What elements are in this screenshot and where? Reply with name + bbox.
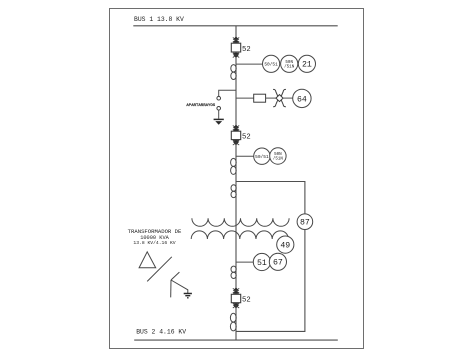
svg-text:/51N: /51N (284, 64, 295, 69)
delta winding symbol (139, 252, 156, 268)
breaker 52 (middle) box (231, 131, 250, 141)
svg-text:49: 49 (280, 242, 290, 251)
transformer T1 primary winding (192, 218, 289, 226)
svg-text:51: 51 (257, 259, 267, 268)
bus BUS 2 4.16 KV (134, 328, 338, 340)
relay 49 thermal (277, 236, 294, 253)
svg-text:50/51: 50/51 (264, 62, 278, 68)
svg-text:67: 67 (273, 259, 283, 268)
relay 50N/51N (transformer primary) (270, 148, 286, 164)
wire branch to transformer primary relays (236, 155, 254, 157)
bus BUS 1 13.8 KV (133, 16, 337, 26)
svg-text:50/51: 50/51 (255, 154, 269, 160)
svg-text:50N: 50N (285, 61, 293, 65)
wire branch to ground relay (236, 97, 254, 99)
breaker 52 (lower) box (231, 294, 250, 304)
svg-text:21: 21 (302, 61, 312, 70)
wire main feeder vertical (235, 26, 237, 340)
breaker 52 (upper) drawout arrow down (233, 53, 239, 58)
potential transformer symbol (273, 89, 293, 106)
CT coil set D above bus 2 (230, 313, 236, 331)
ground (wye neutral) (184, 294, 192, 298)
svg-text:/51N: /51N (273, 157, 284, 162)
svg-text:87: 87 (300, 219, 310, 228)
relay 50/51 (feeder) (263, 55, 280, 72)
breaker 52 (lower) drawout arrow up (233, 287, 239, 293)
wire branch to surge arrester (219, 90, 236, 96)
relay 50/51 (transformer primary) (254, 148, 270, 164)
relay 64 ground (293, 89, 311, 107)
breaker 52 (lower) drawout arrow down (233, 303, 239, 308)
breaker 52 (upper) drawout arrow up (233, 36, 239, 42)
wire differential CT loop to 87 (236, 182, 305, 332)
label APARTARRAYOS (186, 104, 215, 108)
svg-text:13.8 KV/4.16 KV: 13.8 KV/4.16 KV (133, 240, 175, 246)
svg-text:BUS 1 13.8 KV: BUS 1 13.8 KV (134, 16, 184, 23)
surge arrester gap contacts (217, 96, 221, 118)
relay 67 directional (269, 253, 286, 270)
transformer T1 secondary winding (191, 231, 288, 239)
svg-text:52: 52 (242, 46, 251, 54)
svg-text:52: 52 (242, 297, 251, 305)
CT coil set C differential (231, 185, 236, 198)
connection slash (147, 257, 172, 282)
resistor box (grounding) (254, 94, 277, 102)
svg-text:BUS 2 4.16 KV: BUS 2 4.16 KV (136, 328, 186, 335)
CT coil set B below middle breaker (231, 158, 237, 174)
relay 51 (secondary) (253, 253, 270, 270)
relay 87 differential (297, 214, 313, 230)
relay 50N/51N (feeder) (281, 55, 298, 72)
breaker 52 (middle) drawout arrow down (233, 140, 239, 145)
label transformer data (128, 228, 182, 246)
breaker 52 (middle) drawout arrow up (233, 125, 239, 131)
svg-text:64: 64 (297, 95, 307, 104)
ground (surge arrester) (214, 119, 224, 124)
wire branch to secondary relays (236, 261, 253, 263)
relay 21 distance (298, 55, 315, 72)
svg-text:APARTARRAYOS: APARTARRAYOS (186, 104, 215, 108)
CT coil set E above lower breaker (231, 266, 236, 278)
CT coil set A below upper breaker (231, 65, 236, 80)
svg-text:TRANSFORMADOR DE: TRANSFORMADOR DE (128, 228, 182, 235)
wire branch to feeder relays (236, 63, 263, 65)
wye winding symbol (171, 272, 188, 297)
svg-text:52: 52 (242, 134, 251, 142)
svg-text:50N: 50N (274, 153, 282, 157)
breaker 52 (upper) box (231, 43, 250, 54)
